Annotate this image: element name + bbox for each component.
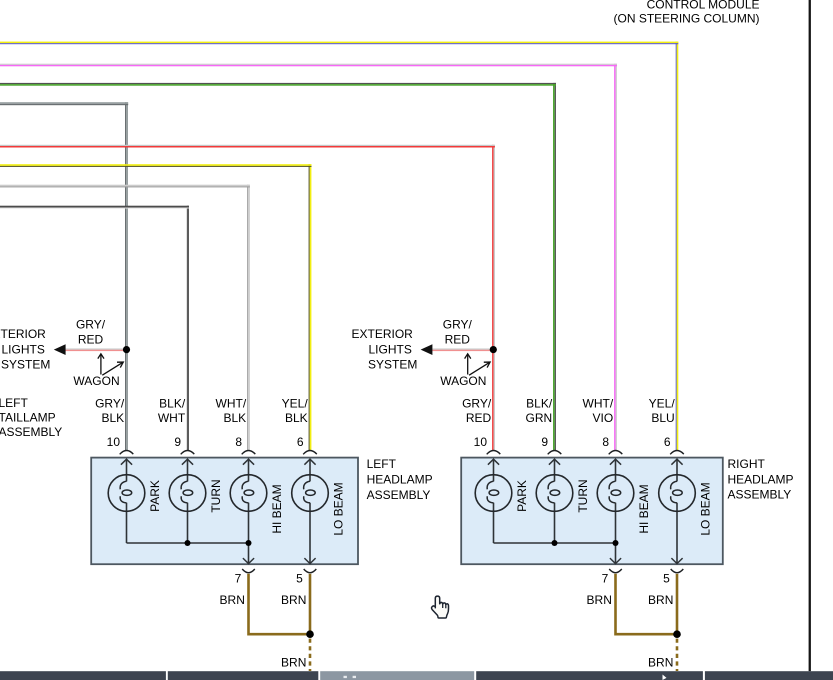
svg-text:9: 9: [174, 435, 181, 449]
svg-text:WAGON: WAGON: [440, 374, 486, 388]
svg-text:7: 7: [235, 572, 242, 586]
svg-text:WAGON: WAGON: [73, 374, 119, 388]
svg-text:LIGHTS: LIGHTS: [2, 343, 45, 357]
pin 7 arrow (right): [610, 558, 621, 564]
bulb HI BEAM (right): [597, 475, 634, 512]
wagon option arrow vertical (right): [465, 354, 471, 375]
bulb LO BEAM (left) internal wire: [304, 459, 315, 563]
ground junction dot (left): [306, 630, 314, 638]
svg-text:BRN: BRN: [587, 593, 612, 607]
label wire color pin 9 (right): [526, 397, 553, 426]
bulb LO BEAM (right): [659, 475, 696, 512]
bulb PARK (left) internal wire: [121, 459, 132, 543]
connector arc pin 6 (right): [670, 450, 684, 454]
svg-text:6: 6: [664, 435, 671, 449]
bulb LO BEAM (right) internal wire: [671, 459, 682, 563]
wire BRN dashed continuation (right): [676, 639, 679, 671]
label RIGHT HEADLAMP ASSEMBLY: [728, 457, 794, 502]
arrow to exterior lights system (right): [421, 344, 433, 355]
label wire color pin 10 (right): [462, 397, 492, 426]
junction node wagon tap (left): [123, 346, 130, 353]
mouse hand cursor: [432, 596, 449, 618]
wire GRY/BLK vertical drop to left pin 10: [125, 102, 128, 450]
svg-text:LEFT: LEFT: [367, 457, 397, 471]
svg-text:PARK: PARK: [515, 480, 529, 512]
svg-text:8: 8: [602, 435, 609, 449]
svg-text:LO BEAM: LO BEAM: [332, 482, 346, 535]
svg-text:BLK: BLK: [102, 411, 125, 425]
label GRY/RED tap (left): [76, 317, 106, 346]
svg-text:BRN: BRN: [648, 593, 673, 607]
label wire color pin 8 (right): [583, 397, 614, 426]
svg-text:WHT: WHT: [158, 411, 186, 425]
wire BLK/WHT vertical drop to left pin 9: [186, 206, 189, 451]
svg-text:TURN: TURN: [576, 479, 590, 512]
svg-text:BLK/: BLK/: [526, 397, 553, 411]
svg-text:RED: RED: [466, 411, 492, 425]
wire WHT/BLK vertical drop to left pin 8: [247, 185, 250, 451]
wire YEL/BLU horizontal: [0, 42, 678, 45]
wire GRY/RED stub to exterior lights system (left): [65, 349, 128, 352]
svg-text:GRY/: GRY/: [462, 397, 492, 411]
svg-text:5: 5: [663, 572, 670, 586]
bulb HI BEAM (right) internal wire: [610, 459, 621, 563]
pin 5 arrow (left): [304, 558, 315, 564]
connector arc pin 8 (right): [609, 450, 623, 454]
label LEFT HEADLAMP ASSEMBLY: [367, 457, 433, 502]
svg-text:CONTROL MODULE: CONTROL MODULE: [647, 0, 760, 11]
pin 5 arrow (right): [671, 558, 682, 564]
svg-text:WHT/: WHT/: [583, 397, 614, 411]
svg-text:PARK: PARK: [148, 480, 162, 512]
svg-text:TURN: TURN: [209, 479, 223, 512]
wire BLK/GRN vertical drop to right pin 9: [553, 83, 556, 450]
bulb PARK (right): [475, 475, 512, 512]
svg-text:GRN: GRN: [526, 411, 553, 425]
svg-text:VIO: VIO: [593, 411, 614, 425]
wire BRN pin 7 down (right): [616, 574, 678, 634]
svg-text:RED: RED: [445, 332, 471, 346]
svg-text:YEL/: YEL/: [649, 397, 676, 411]
bulb TURN (left) internal wire: [182, 459, 193, 543]
svg-text:6: 6: [297, 435, 304, 449]
svg-text:GRY/: GRY/: [76, 317, 106, 331]
bottom toolbar band: [0, 671, 833, 680]
label GRY/RED tap (right): [443, 317, 473, 346]
svg-text:10: 10: [474, 435, 488, 449]
svg-text:10: 10: [107, 435, 121, 449]
wire YEL/BLU vertical drop to right pin 6: [676, 42, 679, 451]
ground bus inside box (right): [494, 542, 616, 544]
connector arc pin 9 (right): [548, 450, 562, 454]
svg-text:LO BEAM: LO BEAM: [699, 482, 713, 535]
svg-text:HEADLAMP: HEADLAMP: [728, 473, 794, 487]
svg-text:ASSEMBLY: ASSEMBLY: [0, 425, 62, 439]
svg-text:GRY/: GRY/: [95, 397, 125, 411]
label EXTERIOR LIGHTS SYSTEM (right): [352, 327, 418, 372]
junction dot bus/turn (left): [185, 540, 191, 546]
connector arc pin 10 (left): [120, 450, 134, 454]
svg-text:HEADLAMP: HEADLAMP: [367, 473, 433, 487]
connector arc pin 7 (left): [242, 569, 255, 573]
wire YEL/BLK horizontal: [0, 164, 312, 167]
svg-text:7: 7: [602, 572, 609, 586]
bulb LO BEAM (left): [292, 475, 329, 512]
left headlamp assembly box: [91, 458, 358, 565]
svg-text:RIGHT: RIGHT: [728, 457, 766, 471]
svg-text:BLK: BLK: [285, 411, 308, 425]
bulb PARK (left): [108, 475, 145, 512]
wire GRY/RED horizontal: [0, 145, 495, 148]
svg-text:9: 9: [541, 435, 548, 449]
svg-text:BLK: BLK: [224, 411, 247, 425]
bulb TURN (right): [536, 475, 573, 512]
svg-text:SYSTEM: SYSTEM: [368, 358, 417, 372]
wire GRY/RED stub to exterior lights system (right): [432, 349, 495, 352]
connector arc pin 8 (left): [242, 450, 256, 454]
wire BRN pin 5 down (left): [309, 574, 312, 634]
svg-text:WHT/: WHT/: [216, 397, 247, 411]
right headlamp assembly box: [461, 458, 723, 565]
junction node wagon tap (right): [490, 346, 497, 353]
svg-text:ASSEMBLY: ASSEMBLY: [367, 488, 431, 502]
sheet border (control module outline): [809, 0, 811, 671]
connector arc pin 10 (right): [487, 450, 501, 454]
bulb HI BEAM (left) internal wire: [243, 459, 254, 563]
svg-text:LEFT: LEFT: [0, 396, 29, 410]
svg-text:RED: RED: [78, 332, 104, 346]
svg-text:BLU: BLU: [651, 411, 674, 425]
junction dot bus/hibeam (right): [613, 540, 619, 546]
wagon option arrow diagonal (left): [102, 362, 123, 375]
bulb HI BEAM (left): [230, 475, 267, 512]
label wire color pin 9 (left): [158, 397, 186, 426]
junction dot bus/hibeam (left): [246, 540, 252, 546]
svg-text:ASSEMBLY: ASSEMBLY: [728, 488, 792, 502]
label wire color pin 6 (right): [649, 397, 676, 426]
pin 7 arrow (left): [243, 558, 254, 564]
wire YEL/BLK vertical drop to left pin 6: [309, 164, 312, 450]
wire BLK/WHT horizontal: [0, 206, 189, 209]
control module label: [613, 0, 759, 26]
svg-text:BRN: BRN: [281, 656, 306, 670]
svg-text:YEL/: YEL/: [282, 397, 309, 411]
svg-text:TAILLAMP: TAILLAMP: [0, 411, 56, 425]
svg-text:HI BEAM: HI BEAM: [637, 484, 651, 533]
label wire color pin 8 (left): [216, 397, 247, 426]
svg-text:5: 5: [296, 572, 303, 586]
junction dot bus/turn (right): [552, 540, 558, 546]
ground bus inside box (left): [127, 542, 249, 544]
label EXTERIOR LIGHTS SYSTEM (left, clipped): [0, 327, 50, 372]
wire BLK/GRN horizontal: [0, 83, 556, 86]
svg-text:BRN: BRN: [648, 656, 673, 670]
wagon option arrow diagonal (right): [469, 362, 490, 375]
wire GRY/RED vertical drop to right pin 10: [492, 145, 495, 450]
svg-text:LIGHTS: LIGHTS: [369, 343, 412, 357]
svg-text:BRN: BRN: [281, 593, 306, 607]
svg-text:EXTERIOR: EXTERIOR: [0, 327, 46, 341]
wire BRN pin 5 down (right): [676, 574, 679, 634]
connector arc pin 5 (left): [304, 569, 317, 573]
label LEFT TAILLAMP ASSEMBLY (clipped): [0, 396, 62, 439]
label wire color pin 6 (left): [282, 397, 309, 426]
connector arc pin 7 (right): [609, 569, 622, 573]
wire WHT/BLK horizontal: [0, 185, 250, 188]
svg-text:SYSTEM: SYSTEM: [1, 358, 50, 372]
wire BRN pin 7 down (left): [249, 574, 311, 634]
svg-text:(ON STEERING COLUMN): (ON STEERING COLUMN): [613, 12, 759, 26]
connector arc pin 5 (right): [671, 569, 684, 573]
svg-text:8: 8: [235, 435, 242, 449]
bulb TURN (left): [169, 475, 206, 512]
wagon option arrow vertical (left): [98, 354, 104, 375]
svg-text:BRN: BRN: [220, 593, 245, 607]
wire WHT/VIO vertical drop to right pin 8: [614, 64, 617, 451]
wire GRY/BLK horizontal: [0, 102, 128, 105]
connector arc pin 9 (left): [181, 450, 195, 454]
svg-text:BLK/: BLK/: [159, 397, 186, 411]
label wire color pin 10 (left): [95, 397, 125, 426]
svg-text:HI BEAM: HI BEAM: [270, 484, 284, 533]
svg-text:EXTERIOR: EXTERIOR: [352, 327, 414, 341]
connector arc pin 6 (left): [303, 450, 317, 454]
wire BRN dashed continuation (left): [309, 639, 312, 671]
svg-text:GRY/: GRY/: [443, 317, 473, 331]
arrow to exterior lights system (left): [54, 344, 66, 355]
ground junction dot (right): [673, 630, 681, 638]
bulb TURN (right) internal wire: [549, 459, 560, 543]
wire WHT/VIO horizontal: [0, 64, 617, 67]
bulb PARK (right) internal wire: [488, 459, 499, 543]
